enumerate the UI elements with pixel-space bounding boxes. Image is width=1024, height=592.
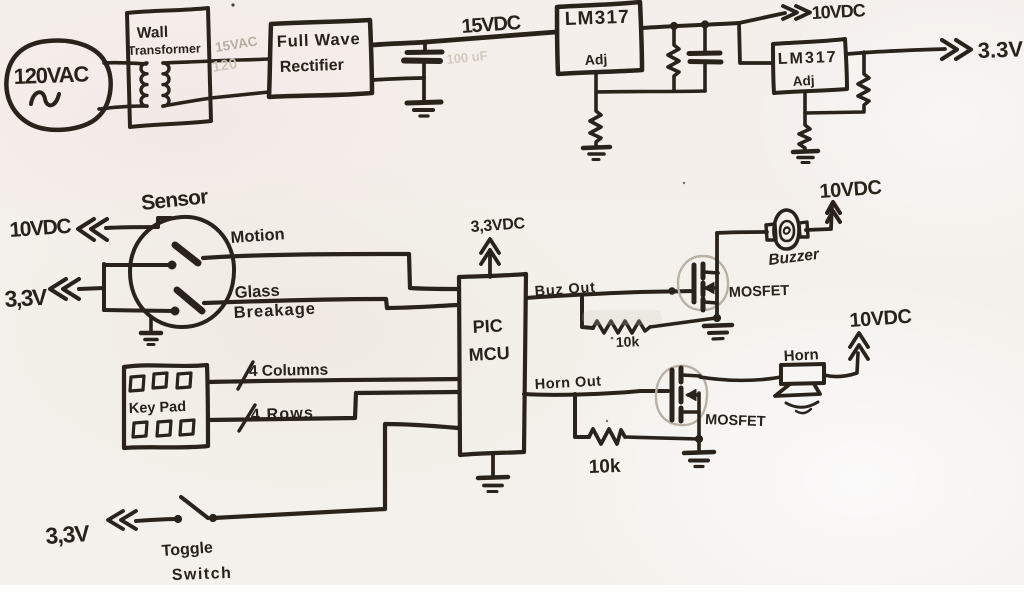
wire switch to PIC xyxy=(213,424,458,518)
svg-text:10k: 10k xyxy=(588,456,621,478)
buz out wire to gate xyxy=(526,291,694,298)
10VDC arrow (buzzer) xyxy=(827,202,840,213)
Switch label xyxy=(172,565,233,584)
15VDC label xyxy=(461,12,522,38)
horn cone xyxy=(775,384,820,396)
paper speck xyxy=(683,182,685,184)
Key Pad label xyxy=(129,399,187,417)
mosfet Q2 gate bar xyxy=(670,370,675,420)
wire AC to transformer (bottom) xyxy=(99,106,147,109)
resistor R3 (output to adj) xyxy=(805,52,869,113)
svg-text:10VDC: 10VDC xyxy=(9,215,72,242)
mosfet Q2 source stub xyxy=(682,410,699,414)
svg-text:10VDC: 10VDC xyxy=(819,177,882,203)
smudge xyxy=(582,310,662,325)
wire rectifier bottom to cap stem xyxy=(372,78,424,80)
keypad button xyxy=(157,421,171,436)
svg-text:PIC: PIC xyxy=(472,315,503,337)
svg-text:LM317: LM317 xyxy=(564,7,630,30)
10VDC arrow (horn) xyxy=(850,333,868,347)
svg-text:Toggle: Toggle xyxy=(161,539,213,560)
branch down to LM317 #2 xyxy=(739,23,772,63)
svg-text:MOSFET: MOSFET xyxy=(729,283,790,301)
pulldown branch 10k (buzzer) xyxy=(582,296,593,328)
svg-text:15VDC: 15VDC xyxy=(461,12,522,38)
Buzzer label xyxy=(767,246,820,269)
wire resistor to source node xyxy=(650,318,716,327)
10VDC arrow chevrons xyxy=(783,6,797,19)
Full Wave Rectifier label xyxy=(277,30,361,76)
ground (C1) xyxy=(407,102,441,103)
wire arrow to switch xyxy=(136,519,177,521)
PIC ground xyxy=(491,453,495,477)
mosfet Q2 outline blob xyxy=(656,366,707,425)
node dot xyxy=(670,22,677,29)
wire transformer to rectifier (top) xyxy=(163,59,269,63)
10VDC label (horn) xyxy=(849,306,912,332)
horn body xyxy=(781,364,824,384)
svg-text:Rectifier: Rectifier xyxy=(280,57,345,76)
columns slash xyxy=(238,362,253,389)
LM317#1 output rail xyxy=(642,23,739,28)
ground (R2) xyxy=(583,147,610,148)
wire horn to 10VDC arrow xyxy=(824,353,858,376)
3.3VDC label xyxy=(977,35,1024,63)
wire to 10VDC arrow xyxy=(739,13,785,23)
Horn label xyxy=(783,346,819,365)
3.3V label (sensor) xyxy=(4,284,49,312)
wire drain up and to buzzer xyxy=(717,232,767,233)
gate node dot xyxy=(669,288,675,294)
120VAC label xyxy=(13,61,89,89)
adj net wire xyxy=(596,74,705,92)
3.3VDC label (PIC) xyxy=(470,215,526,236)
resistor 10k xyxy=(593,321,650,333)
svg-text:10k: 10k xyxy=(616,333,640,350)
faint 100uF note xyxy=(446,48,489,67)
buzzer left terminal xyxy=(766,224,776,240)
svg-text:Full Wave: Full Wave xyxy=(277,30,361,51)
horn out wire to gate xyxy=(524,391,668,395)
Sensor label xyxy=(140,185,209,215)
adj stem + resistor R4 to ground xyxy=(799,93,810,150)
buzzer inner xyxy=(780,221,794,241)
left bus vertical xyxy=(102,264,106,310)
LM317#2 output to 3.3V arrow xyxy=(847,49,945,54)
mosfet Q1 outline circle xyxy=(678,256,728,310)
LM317 #1 box xyxy=(557,2,642,74)
3.3V arrow chevrons xyxy=(50,279,66,299)
wire resistor to source node xyxy=(625,437,699,439)
cap stem to ground xyxy=(422,78,426,102)
resistor R2 (adj to ground) xyxy=(590,92,601,147)
resistor R1 (output to adj net) xyxy=(668,26,679,91)
10k label xyxy=(616,333,640,350)
svg-text:Switch: Switch xyxy=(172,565,233,584)
svg-text:Key Pad: Key Pad xyxy=(129,399,187,417)
glass switch blade xyxy=(177,290,202,311)
columns wire to PIC xyxy=(208,379,458,382)
mosfet Q2 ground xyxy=(697,439,701,452)
mosfet Q1 ground xyxy=(704,325,732,326)
paper speck xyxy=(606,420,608,422)
horn sound arc small xyxy=(796,409,811,413)
LM317 #2 box xyxy=(773,39,847,93)
mosfet Q1 source arrow xyxy=(706,286,717,289)
paper speck xyxy=(611,337,614,340)
svg-text:Horn: Horn xyxy=(783,346,819,365)
buzzer body xyxy=(774,210,799,249)
Glass label xyxy=(234,282,280,302)
toggle pole dot xyxy=(174,515,181,522)
wall transformer box xyxy=(127,8,211,127)
buzzer right terminal xyxy=(799,222,808,237)
keypad button xyxy=(153,373,167,388)
motion switch pole dot xyxy=(168,261,176,269)
capacitor C2 xyxy=(703,25,707,52)
svg-text:3.3VDC: 3.3VDC xyxy=(977,35,1024,63)
15VDC rail to LM317 xyxy=(372,32,556,45)
svg-text:4 Columns: 4 Columns xyxy=(249,362,329,380)
svg-text:Adj: Adj xyxy=(584,51,607,68)
svg-text:Adj: Adj xyxy=(792,73,815,89)
svg-text:120VAC: 120VAC xyxy=(13,61,89,89)
10VDC left arrow chevrons xyxy=(78,219,94,240)
svg-text:10VDC: 10VDC xyxy=(849,306,912,332)
wire AC to transformer (top) xyxy=(104,63,146,64)
10VDC label xyxy=(811,0,866,23)
filter capacitor C1 xyxy=(423,42,427,51)
svg-text:LM317: LM317 xyxy=(778,49,838,68)
3.3V arrow chevrons xyxy=(942,40,957,59)
node dot xyxy=(701,21,708,28)
sensor ground xyxy=(149,317,153,332)
mosfet Q1 channel segments xyxy=(701,264,706,278)
source node dot xyxy=(695,435,702,442)
svg-text:Wall: Wall xyxy=(137,24,169,42)
svg-text:MOSFET: MOSFET xyxy=(705,412,766,430)
toggle throw dot xyxy=(209,514,216,521)
wire arrow to sensor xyxy=(106,218,171,228)
motion switch blade xyxy=(175,245,198,263)
svg-text:MCU: MCU xyxy=(468,343,510,365)
toggle blade xyxy=(181,497,208,518)
Breakage label xyxy=(233,300,316,322)
sensor circle xyxy=(130,217,234,327)
resistor 10k (horn) xyxy=(589,429,625,444)
full wave rectifier box xyxy=(269,20,372,97)
horn sound arc xyxy=(786,402,818,407)
mosfet Q2 channel segments xyxy=(679,368,684,382)
sine squiggle xyxy=(31,92,59,105)
svg-text:3,3V: 3,3V xyxy=(4,284,49,312)
Wall Transformer label xyxy=(128,24,202,58)
svg-text:3,3V: 3,3V xyxy=(45,520,92,549)
PIC MCU box xyxy=(459,274,526,455)
rows wire to PIC xyxy=(208,392,458,420)
faint 15VAC note xyxy=(211,33,259,75)
svg-text:Transformer: Transformer xyxy=(128,41,202,58)
LM317 label xyxy=(564,7,630,68)
mosfet Q2 drain stub to horn wire xyxy=(682,375,700,376)
ground (R4) xyxy=(793,151,818,152)
MOSFET label (horn) xyxy=(705,412,766,430)
keypad button xyxy=(133,422,147,437)
Toggle label xyxy=(161,539,213,560)
glass wire to PIC xyxy=(204,299,458,308)
mosfet Q1 gate bar xyxy=(692,265,697,302)
3.3V label (toggle) xyxy=(45,520,92,549)
LM317 label xyxy=(778,49,838,89)
Horn Out label xyxy=(534,374,602,393)
mosfet Q1 vertical drain/source wire xyxy=(715,233,719,318)
keypad button xyxy=(130,376,144,391)
keypad button xyxy=(177,373,191,388)
paper speck xyxy=(231,3,234,6)
glass switch pole dot xyxy=(171,307,179,315)
wire to horn xyxy=(700,377,781,380)
svg-text:Motion: Motion xyxy=(230,225,285,247)
3.3V tap wire xyxy=(79,288,104,289)
svg-text:10VDC: 10VDC xyxy=(811,0,866,23)
4 Rows label xyxy=(251,405,315,424)
MOSFET label xyxy=(729,283,790,301)
10VDC label (buzzer) xyxy=(819,177,882,203)
keypad button xyxy=(180,420,194,435)
wire buzzer to 10VDC arrow xyxy=(806,205,832,230)
pulldown branch 10k (horn) xyxy=(575,394,589,437)
svg-text:4 Rows: 4 Rows xyxy=(251,405,315,424)
transformer secondary coil xyxy=(163,63,169,106)
mosfet Q1 source stub xyxy=(704,302,717,303)
mosfet Q1 drain stub xyxy=(704,272,718,273)
source node dot xyxy=(713,314,720,321)
rows slash xyxy=(239,405,255,431)
Buz Out label xyxy=(534,280,596,300)
mosfet Q2 source arrow xyxy=(688,393,699,396)
10VDC label (sensor) xyxy=(9,215,72,242)
4 Columns label xyxy=(249,362,329,380)
keypad box xyxy=(124,365,208,448)
mosfet Q2 vertical source wire xyxy=(697,393,701,439)
AC source 120VAC oval xyxy=(6,40,110,129)
buzzer inner scribble xyxy=(784,227,790,233)
toggle arrow chevrons xyxy=(108,511,123,529)
3.3VDC arrow above PIC xyxy=(488,250,492,277)
wire motion pole to left bus xyxy=(104,263,172,267)
Motion label xyxy=(230,225,285,247)
motion wire to PIC xyxy=(203,254,458,289)
wire transformer to rectifier (bottom) xyxy=(163,92,269,106)
wire glass pole to left bus xyxy=(104,310,175,311)
PIC MCU label xyxy=(468,315,510,365)
transformer primary coil xyxy=(141,63,147,106)
10k label (horn) xyxy=(588,456,621,478)
